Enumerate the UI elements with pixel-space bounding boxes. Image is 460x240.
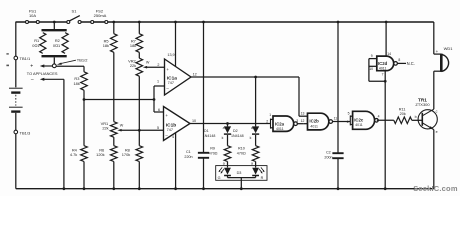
node rail IC2d pin14 bbox=[385, 21, 388, 24]
resistor R3 18k bbox=[81, 72, 88, 90]
svg-text:W: W bbox=[146, 60, 150, 64]
svg-text:a: a bbox=[223, 162, 225, 166]
wire TB1/2 to R3 bbox=[56, 65, 84, 67]
node wiper R8 junction bbox=[138, 129, 141, 132]
diode D2 1N4148 bbox=[252, 126, 259, 133]
wire R5 to VR1 bbox=[113, 52, 115, 121]
terminal TB1/2 bbox=[52, 64, 56, 68]
wire IC2d pin7 bbox=[384, 71, 386, 82]
svg-text:220n: 220n bbox=[184, 155, 192, 159]
resistor R5 18k bbox=[113, 22, 115, 34]
svg-text:7: 7 bbox=[382, 73, 384, 77]
svg-text:–: – bbox=[31, 77, 34, 83]
wire emitter to rail bbox=[433, 130, 435, 189]
node sense divider bbox=[83, 98, 86, 101]
svg-text:18k: 18k bbox=[130, 43, 136, 48]
switch S1 bbox=[67, 21, 70, 24]
wire C1 bottom bbox=[203, 158, 205, 188]
battery B1 bbox=[9, 87, 23, 89]
svg-text:18k: 18k bbox=[74, 81, 80, 86]
svg-text:12: 12 bbox=[193, 72, 197, 76]
svg-text:20k: 20k bbox=[400, 112, 406, 116]
wire R10 to LED red bbox=[255, 162, 257, 168]
svg-text:13: 13 bbox=[301, 111, 305, 115]
svg-text:6: 6 bbox=[347, 120, 349, 124]
svg-text:a: a bbox=[251, 126, 253, 130]
led indicator D3 outline bbox=[216, 166, 267, 181]
wire rail to WD1 bbox=[433, 22, 435, 54]
svg-text:4011: 4011 bbox=[379, 67, 387, 71]
svg-text:k: k bbox=[222, 136, 224, 140]
node sense to opamp column bbox=[153, 98, 156, 101]
svg-text:WD1: WD1 bbox=[444, 46, 454, 51]
wire IC2d supply pin14 bbox=[385, 22, 387, 56]
wire shunt bottom bus bbox=[42, 55, 67, 57]
svg-text:+: + bbox=[436, 49, 439, 54]
svg-text:1N4148: 1N4148 bbox=[231, 134, 244, 138]
node rail opamp supply bbox=[174, 21, 177, 24]
wire LED cathodes join bbox=[227, 176, 229, 178]
svg-text:IC2b: IC2b bbox=[309, 119, 319, 124]
svg-text:22k: 22k bbox=[130, 63, 136, 68]
svg-text:9: 9 bbox=[371, 54, 373, 58]
wire R4 to rail bbox=[83, 162, 85, 189]
node IC1b output to D1 bbox=[226, 122, 229, 125]
wire IC1a output down bbox=[255, 77, 257, 126]
resistor R11 20k bbox=[394, 117, 412, 124]
wire negative appliance drop bbox=[63, 79, 65, 188]
transistor TR1 ZTX300 bbox=[418, 110, 437, 129]
svg-text:R11: R11 bbox=[399, 107, 406, 111]
resistor R9 470R bbox=[224, 146, 231, 162]
wire VR1 to R6 bbox=[113, 137, 115, 146]
resistor R1 0.1 ohm bbox=[40, 33, 46, 54]
capacitor C2 200n bbox=[332, 152, 343, 154]
svg-text:+: + bbox=[165, 113, 168, 118]
wire IC1b noninverting input bbox=[154, 111, 164, 113]
wire IC2a output bbox=[297, 123, 304, 125]
wire sense horizontal bbox=[84, 99, 154, 101]
svg-text:a: a bbox=[223, 126, 225, 130]
svg-text:b: b bbox=[415, 115, 417, 119]
terminal TB1/3 bbox=[14, 130, 18, 134]
node rail to shunt tap bbox=[53, 21, 56, 24]
svg-text:R: R bbox=[261, 176, 264, 180]
svg-text:470Ω: 470Ω bbox=[209, 151, 218, 155]
wire IC2d inputs down bbox=[384, 81, 386, 120]
terminal TB1/1 bbox=[14, 56, 18, 60]
wire IC2d ground pin7 to rail bbox=[384, 120, 386, 188]
wire R7 to VR2 bbox=[138, 52, 140, 58]
nand gate IC2d bbox=[377, 56, 394, 71]
node negative drop to rail bbox=[63, 187, 66, 190]
wire WD1 to collector bbox=[434, 70, 442, 72]
wire C2 bottom bbox=[337, 159, 339, 189]
wire IC1a out to IC2b pin13 bbox=[298, 77, 300, 116]
svg-text:R10: R10 bbox=[238, 147, 245, 151]
wire IC1b supply pin4 bbox=[175, 133, 177, 189]
svg-text:250mA: 250mA bbox=[94, 13, 107, 18]
svg-text:4.7k: 4.7k bbox=[70, 152, 77, 157]
wire top supply rail bbox=[16, 21, 67, 23]
node rail C1 bbox=[202, 21, 205, 24]
svg-text:6: 6 bbox=[158, 108, 160, 112]
potentiometer VR2 22k bbox=[136, 58, 143, 76]
svg-text:W: W bbox=[120, 124, 124, 128]
svg-text:N.C.: N.C. bbox=[407, 61, 415, 66]
svg-text:D1: D1 bbox=[204, 129, 209, 133]
svg-text:+: + bbox=[30, 64, 33, 70]
wire IC2d inputs loop bbox=[369, 58, 377, 60]
wire battery to TB1/3 bbox=[15, 113, 17, 130]
op-amp IC1a bbox=[165, 59, 192, 95]
svg-text:4011: 4011 bbox=[276, 127, 284, 131]
capacitor C1 220n bbox=[198, 152, 209, 154]
svg-text:D2: D2 bbox=[233, 129, 238, 133]
svg-text:TO APPLIANCES: TO APPLIANCES bbox=[27, 71, 58, 76]
resistor R6 120k bbox=[111, 146, 118, 162]
wire VR2 wiper bbox=[147, 66, 165, 68]
resistor R8 170k bbox=[138, 130, 140, 145]
svg-text:11: 11 bbox=[334, 117, 338, 121]
wire IC1a inverting input bbox=[154, 85, 165, 87]
svg-text:R9: R9 bbox=[210, 147, 215, 151]
led D3 red bbox=[252, 168, 259, 175]
svg-text:C1: C1 bbox=[186, 150, 191, 154]
wire C2 top bbox=[337, 22, 339, 153]
svg-text:4011: 4011 bbox=[355, 123, 363, 127]
wire IC1b output bbox=[190, 123, 271, 125]
nand gate IC2b bbox=[308, 113, 329, 130]
resistor R4 4.7k bbox=[83, 100, 85, 146]
svg-text:470Ω: 470Ω bbox=[237, 151, 246, 155]
svg-text:18k: 18k bbox=[103, 43, 109, 48]
wire shunt top tap bbox=[53, 22, 55, 30]
svg-text:TB1/3: TB1/3 bbox=[20, 131, 31, 136]
wire IC2b output bbox=[332, 121, 350, 123]
wire IC2d output NC bbox=[397, 62, 406, 64]
led D3 green bbox=[224, 168, 231, 175]
wire bottom 0V rail bbox=[16, 188, 434, 190]
svg-text:1: 1 bbox=[269, 113, 271, 117]
resistor R10 470R bbox=[252, 146, 259, 162]
svg-text:13,9: 13,9 bbox=[167, 53, 174, 57]
svg-text:8: 8 bbox=[398, 58, 400, 62]
svg-text:0Ω1: 0Ω1 bbox=[32, 43, 39, 48]
svg-text:2: 2 bbox=[157, 63, 159, 67]
svg-text:1: 1 bbox=[157, 80, 159, 84]
svg-text:a: a bbox=[251, 162, 253, 166]
svg-text:c: c bbox=[436, 109, 438, 113]
node rail R5 bbox=[112, 21, 115, 24]
wire shunt top bus bbox=[42, 29, 67, 31]
svg-text:ZTX300: ZTX300 bbox=[415, 102, 430, 107]
wire R9 to LED green bbox=[227, 162, 229, 168]
speck bbox=[6, 53, 8, 54]
svg-text:+: + bbox=[166, 67, 169, 72]
wire R8 to rail bbox=[138, 162, 140, 189]
wire IC2c output bbox=[377, 119, 394, 121]
resistor R2 0.1 ohm bbox=[62, 33, 68, 54]
svg-text:G: G bbox=[218, 176, 221, 180]
wire IC1a output bbox=[191, 76, 299, 78]
wire R3 to sense node bbox=[83, 90, 85, 99]
svg-text:747: 747 bbox=[168, 81, 174, 85]
potentiometer VR1 22k bbox=[111, 122, 118, 138]
wire to appliances negative bbox=[44, 78, 64, 80]
wire TB1/3 to bottom rail bbox=[15, 134, 17, 189]
svg-text:4011: 4011 bbox=[310, 124, 318, 128]
svg-text:0Ω1: 0Ω1 bbox=[53, 43, 60, 48]
wire TB1/2 pointer bbox=[59, 60, 76, 64]
wire R11 to base bbox=[412, 119, 423, 121]
resistor R7 18k bbox=[138, 22, 140, 34]
wire D3 common to rail bbox=[240, 178, 242, 189]
wire D2 to R10 bbox=[255, 135, 257, 146]
svg-text:e: e bbox=[436, 130, 438, 134]
svg-text:k: k bbox=[250, 136, 252, 140]
op-amp IC1b bbox=[164, 107, 191, 141]
wire R6 to rail bbox=[113, 162, 115, 189]
svg-text:10: 10 bbox=[369, 67, 373, 71]
svg-text:3: 3 bbox=[296, 119, 298, 123]
wire VR1 wiper bbox=[121, 129, 163, 131]
svg-text:170k: 170k bbox=[122, 152, 130, 157]
svg-text:TB1/2: TB1/2 bbox=[77, 57, 88, 62]
wire D1 to R9 bbox=[227, 135, 229, 146]
svg-text:D3: D3 bbox=[237, 171, 242, 175]
node IC1a output to D2 bbox=[254, 76, 257, 79]
svg-text:5: 5 bbox=[348, 112, 350, 116]
svg-text:12: 12 bbox=[301, 119, 305, 123]
svg-text:10A: 10A bbox=[29, 13, 36, 18]
svg-text:4: 4 bbox=[378, 115, 380, 119]
svg-text:200n: 200n bbox=[324, 155, 332, 159]
svg-text:5: 5 bbox=[157, 126, 159, 130]
svg-text:IC2d: IC2d bbox=[378, 61, 388, 66]
node IC2d input junction bbox=[384, 80, 387, 83]
svg-text:C2: C2 bbox=[326, 151, 331, 155]
svg-text:747: 747 bbox=[167, 128, 173, 132]
node rail R7 bbox=[138, 21, 141, 24]
wire left battery positive lead bbox=[15, 22, 17, 57]
wire shunt bottom tap bbox=[53, 57, 55, 64]
nand gate IC2a bbox=[270, 119, 272, 129]
wire VR2 to R8 bbox=[138, 76, 140, 130]
wire to appliances positive bbox=[44, 65, 53, 67]
node rail C2 bbox=[337, 21, 340, 24]
fuse FS1 10A bbox=[27, 21, 38, 23]
svg-text:120k: 120k bbox=[96, 152, 104, 157]
wire C1 top bbox=[203, 22, 205, 152]
wire collector to WD1 bbox=[433, 71, 435, 109]
svg-text:4: 4 bbox=[172, 135, 174, 139]
svg-text:2: 2 bbox=[266, 120, 268, 124]
wire opamp supply bbox=[175, 22, 177, 67]
svg-text:1N4148: 1N4148 bbox=[203, 134, 216, 138]
svg-text:TB1/1: TB1/1 bbox=[20, 56, 31, 61]
svg-text:S1: S1 bbox=[72, 9, 78, 14]
nand gate IC2c bbox=[349, 115, 351, 125]
svg-text:IC2c: IC2c bbox=[354, 117, 364, 122]
svg-text:IC2a: IC2a bbox=[275, 121, 285, 126]
svg-text:22k: 22k bbox=[102, 125, 108, 130]
svg-text:SeekIC.com: SeekIC.com bbox=[413, 184, 458, 193]
fuse FS2 250mA bbox=[92, 21, 106, 23]
diode D1 1N4148 bbox=[227, 124, 229, 127]
sounder WD1 bbox=[440, 54, 443, 72]
svg-text:10: 10 bbox=[192, 119, 196, 123]
